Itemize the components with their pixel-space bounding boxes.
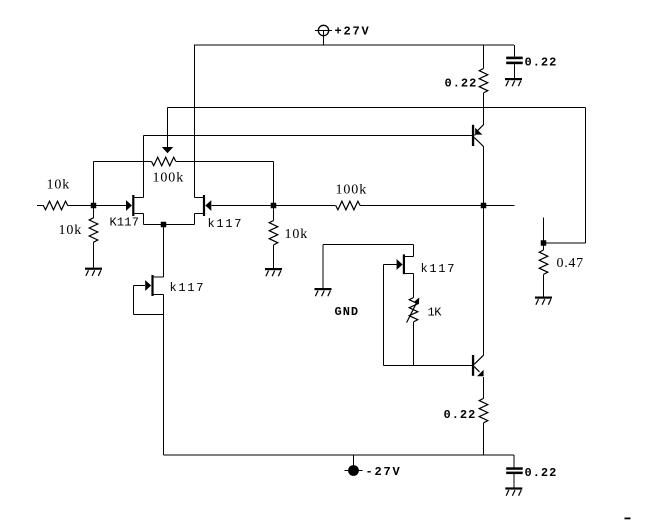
wire Q5 gate drop (383, 265, 385, 366)
svg-text:0.22: 0.22 (525, 466, 558, 480)
transistor Q6 emitter (474, 367, 483, 377)
power +27V symbol (315, 25, 332, 45)
wire feedback top (168, 107, 586, 109)
wire bias gnd drop (322, 245, 324, 289)
wire rail left drop (194, 45, 196, 198)
svg-text:0.47: 0.47 (557, 256, 584, 271)
wire right gate lead (211, 205, 273, 207)
potentiometer 1K arrow (407, 297, 420, 322)
svg-text:-27V: -27V (366, 465, 402, 479)
wire left gate lead (94, 205, 127, 207)
wire output tap stub (543, 218, 545, 244)
resistor R 100k middle (274, 201, 484, 210)
wire pot right leg down (273, 162, 275, 206)
wire output stub (484, 205, 515, 207)
wire bias drain riser (413, 245, 415, 257)
resistor R 10k right to ground (269, 206, 278, 269)
svg-text:1K: 1K (428, 306, 443, 320)
wire pot bottom to base row (413, 322, 415, 366)
ground below C1 (505, 78, 522, 80)
svg-text:100k: 100k (153, 171, 185, 186)
svg-text:0.22: 0.22 (444, 408, 477, 422)
stray mark bottom right (625, 518, 631, 520)
wire wiper from feedback (167, 108, 169, 148)
pot wiper arrow (162, 147, 173, 153)
node left gate junction (91, 203, 97, 209)
wire tail bus (144, 224, 195, 226)
transistor Q1 PNP base bar (472, 125, 474, 146)
svg-text:k117: k117 (208, 217, 244, 231)
wire Q6 emitter down (483, 377, 485, 398)
wire Q1 base from diff pair (144, 135, 472, 137)
wire Q4 gate lead (134, 285, 146, 287)
power -27V symbol (345, 455, 363, 476)
svg-text:100k: 100k (336, 183, 368, 198)
node tail junction (161, 222, 167, 228)
transistor Q3 JFET k117 right (195, 195, 212, 216)
potentiometer R 1K body (409, 298, 418, 322)
wire tail to Q4 drain (163, 225, 165, 278)
ground below 0.47 (535, 297, 552, 299)
ground below left 10k (85, 268, 102, 270)
ground below right 10k (265, 268, 282, 270)
svg-text:k117: k117 (170, 281, 206, 295)
wire rail to C2 (513, 455, 515, 467)
wire +V to R0.22 top (483, 45, 485, 69)
wire Q4 gate loop left (133, 286, 135, 315)
wire R0.22 to Q1 emitter (483, 93, 485, 125)
capacitor C1 0.22 (506, 57, 523, 60)
wire Q4 source down to -V rail (163, 295, 165, 456)
transistor Q4 JFET k117 current source (145, 275, 163, 296)
transistor Q2 JFET K117 left (126, 195, 144, 216)
wire Q5 source to pot (413, 274, 415, 298)
svg-text:10k: 10k (47, 178, 71, 193)
wire Q5 gate lead (384, 264, 397, 266)
wire +V rail (194, 44, 514, 46)
svg-text:k117: k117 (421, 262, 457, 276)
node right gate junction (271, 203, 277, 209)
svg-text:10k: 10k (59, 223, 83, 238)
svg-text:10k: 10k (285, 227, 309, 242)
ground bias left (315, 288, 332, 290)
node feedback junction (541, 240, 547, 246)
wire Q6 base row (384, 365, 472, 367)
wire Q3 source drop (194, 214, 196, 225)
capacitor C2 0.22 (506, 467, 523, 470)
wire -V rail (164, 454, 515, 456)
resistor R 10k input (37, 201, 94, 210)
ground below C2 (505, 487, 522, 489)
svg-text:0.22: 0.22 (445, 76, 478, 90)
wire R0.22 to -V rail (483, 423, 485, 455)
resistor R 10k left to ground (89, 206, 98, 268)
wire Q2 source drop (143, 214, 145, 225)
transistor Q6 NPN base bar (472, 355, 474, 376)
resistor R 0.22 lower (479, 398, 488, 422)
potentiometer R 100k body (94, 157, 274, 166)
transistor Q5 JFET k117 bias (397, 254, 414, 274)
svg-text:GND: GND (335, 305, 360, 319)
svg-text:+27V: +27V (335, 25, 371, 39)
resistor R 0.22 upper (479, 69, 488, 93)
wire Q1 collector down (483, 147, 485, 356)
transistor Q6 collector (474, 355, 483, 364)
wire feedback bottom (544, 242, 586, 244)
wire left drain riser (143, 136, 145, 198)
svg-text:0.22: 0.22 (525, 55, 558, 69)
wire bias top (323, 244, 414, 246)
transistor Q1 emitter (474, 125, 483, 135)
wire Q4 gate loop bottom (134, 314, 164, 316)
wire feedback right drop (585, 108, 587, 244)
resistor R 0.47 (539, 243, 548, 297)
node output junction (481, 203, 487, 209)
wire rail to C1 (514, 45, 516, 57)
wire pot left leg down (93, 162, 95, 206)
svg-text:K117: K117 (110, 216, 140, 230)
transistor Q1 collector (474, 138, 483, 147)
